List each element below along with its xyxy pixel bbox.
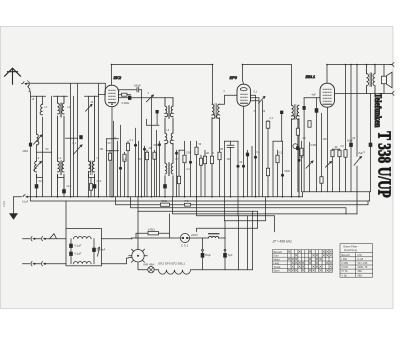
svg-text:5000: 5000 — [154, 144, 160, 147]
svg-text:Lang: Lang — [274, 262, 280, 265]
wire: mains bottom to switch — [102, 257, 133, 264]
capacitor C33 — [147, 110, 160, 125]
wire: long vertical x230 — [227, 141, 234, 197]
svg-text:1M: 1M — [100, 147, 104, 151]
capacitor C11 — [163, 184, 167, 197]
svg-text:468: 468 — [358, 270, 363, 273]
svg-text:2mF: 2mF — [67, 185, 72, 188]
capacitor C2mF — [35, 184, 39, 197]
capacitor C3 — [62, 189, 66, 197]
svg-text:0,3: 0,3 — [279, 151, 283, 155]
capacitor C29 — [143, 148, 146, 151]
wire: left vertical 1 — [30, 92, 32, 197]
wire: EK2 bottom — [111, 107, 113, 197]
model text T338 — [374, 131, 393, 198]
svg-text:1M: 1M — [220, 147, 224, 151]
plug fork top right — [390, 63, 394, 67]
wire: EF6 bottom — [243, 106, 245, 197]
oscillator coil T2 top pair — [165, 98, 173, 119]
svg-text:6–18: 6–18 — [358, 258, 364, 261]
resistor R19 loop — [136, 214, 170, 238]
svg-text:EBL1: EBL1 — [306, 74, 316, 79]
svg-text:II MW: II MW — [342, 262, 349, 265]
coil L1 — [34, 96, 36, 184]
variable arrow EF6 — [251, 96, 266, 196]
svg-text:517–155: 517–155 — [358, 262, 368, 265]
wire: EF6 anode riser — [251, 95, 256, 197]
oscillator coil T2 mid pair — [165, 118, 173, 144]
wire: left vertical x70 — [70, 84, 72, 197]
antenna input plug — [22, 81, 30, 87]
svg-text:0,3MΩ: 0,3MΩ — [122, 101, 130, 105]
wire: EK2 left grid — [99, 94, 106, 96]
resistor R21 — [210, 156, 213, 164]
svg-text:100: 100 — [138, 158, 143, 161]
band table — [273, 250, 333, 273]
wire: EBL1 grid wire — [304, 97, 320, 99]
variable arrow x76 — [74, 145, 83, 154]
plug P3 — [31, 262, 35, 266]
wire: T3 to EF6 grid — [220, 95, 238, 104]
wire: nested y228 — [197, 228, 258, 232]
rotary switch S2 — [129, 247, 147, 265]
svg-text:EK2: EK2 — [114, 75, 122, 80]
resistor R14 — [320, 113, 323, 192]
choke L6 — [74, 236, 92, 238]
svg-text:Tonab.: Tonab. — [274, 266, 282, 269]
wire: link y141c — [225, 140, 239, 142]
variable arrow x328 — [326, 161, 332, 167]
svg-text:4μF: 4μF — [312, 93, 317, 97]
svg-text:Sperr.: Sperr. — [274, 270, 281, 273]
wire: link right y149 — [333, 148, 340, 150]
wire: link y138 — [66, 137, 78, 139]
wire: top bus y=64 far right — [327, 64, 392, 66]
resistor R19 145ohm — [148, 232, 159, 235]
resistor R22 — [108, 153, 111, 160]
wire: EF6 top cap — [243, 65, 244, 85]
svg-text:2mF: 2mF — [97, 180, 102, 183]
capacitor C13 — [281, 141, 284, 197]
svg-text:T 338 U/UP: T 338 U/UP — [374, 131, 393, 198]
resistor R7 — [195, 141, 198, 197]
svg-text:100pF: 100pF — [134, 84, 142, 88]
svg-text:0,5M: 0,5M — [186, 151, 192, 155]
wire: vertical x258.5 — [251, 98, 260, 197]
svg-text:50μF: 50μF — [205, 253, 211, 257]
resistor R15 — [331, 149, 334, 192]
capacitor C23 — [237, 165, 240, 168]
heater chain resistor — [154, 270, 252, 275]
resistor R17 400ohm — [161, 203, 170, 206]
wire: B+ vertical x345 — [344, 65, 347, 192]
svg-text:0,1μF: 0,1μF — [22, 201, 29, 204]
wire: heater top line — [132, 237, 181, 240]
tube table — [340, 244, 373, 278]
wire: vertical x247 — [247, 216, 249, 270]
wire: nested to mains block — [65, 201, 67, 229]
capacitor C28 — [303, 98, 306, 192]
resistor R23 — [123, 154, 126, 161]
ground bus y196.5 — [31, 196, 303, 198]
svg-text:220V: 220V — [191, 233, 198, 237]
capacitor C6 — [93, 184, 97, 197]
wire: EBL1 bottom — [327, 107, 329, 192]
resistor R4 — [145, 150, 148, 197]
resistor R12 — [296, 119, 299, 192]
resistor R11 — [300, 141, 303, 192]
svg-text:Telefunken: Telefunken — [373, 93, 383, 127]
coil L3 pair with core — [58, 96, 65, 161]
ground bus right y191.5 — [303, 93, 371, 196]
resistor R24 — [153, 152, 156, 159]
svg-text:2MΩ: 2MΩ — [23, 149, 29, 153]
node squiggle antenna coil — [28, 85, 30, 92]
capacitor C27 — [280, 111, 283, 142]
svg-text:Zuordnung: Zuordnung — [344, 248, 358, 252]
wire: EBL1 top cap — [326, 65, 328, 84]
ballast C51 — [180, 233, 189, 242]
svg-text:EK2 EF6 EF2 EBL1: EK2 EF6 EF2 EBL1 — [159, 262, 186, 266]
svg-text:5000: 5000 — [285, 170, 291, 173]
svg-text:Mittel: Mittel — [274, 258, 280, 261]
wire: nested y220.5 — [225, 197, 266, 221]
trimmer C5 — [86, 96, 93, 197]
capacitor C8 plates — [118, 88, 142, 92]
wire: antenna bus y=83.5 — [28, 83, 105, 94]
variable arrow mid — [147, 95, 154, 102]
capacitor C15 grid — [315, 98, 319, 192]
wire: nested y211 — [138, 197, 258, 229]
plug P1 — [31, 237, 35, 241]
ground left — [9, 197, 18, 220]
capacitor C26 — [29, 143, 32, 147]
svg-text:100: 100 — [323, 138, 328, 141]
wire: top bus y=64 right — [243, 65, 292, 106]
mains line 1 — [23, 238, 50, 240]
oscillator coil T2 lower pair — [165, 144, 173, 197]
resistor R16 — [338, 149, 341, 192]
choke L7 — [74, 262, 92, 264]
wire: vertical x272.5 — [272, 141, 274, 197]
resistor R3 — [126, 141, 129, 197]
svg-text:400Ω: 400Ω — [161, 199, 167, 203]
wire: EK2 top cap — [111, 65, 113, 86]
svg-text:468: 468 — [358, 274, 363, 277]
svg-text:2000–75: 2000–75 — [358, 266, 368, 269]
svg-text:Bereich: Bereich — [342, 254, 351, 257]
choke L8 — [190, 233, 225, 238]
labels small — [2, 199, 233, 267]
wire: switch bottom riser — [138, 265, 148, 270]
capacitor C19 0.1uF — [69, 252, 73, 264]
svg-text:EF6: EF6 — [230, 75, 238, 80]
wire: vertical x156 — [156, 130, 158, 197]
svg-text:1M: 1M — [206, 152, 209, 155]
wire: long vertical x224 — [224, 141, 226, 221]
svg-text:C 5 1: C 5 1 — [181, 244, 189, 248]
switch S1 — [98, 247, 100, 256]
wire: left section top links — [31, 95, 99, 97]
capacitor C7 — [119, 96, 174, 100]
resistor R6 — [183, 141, 186, 197]
antenna — [5, 68, 21, 84]
resistor R18 — [185, 203, 191, 206]
wire: extra comb verticals — [110, 141, 252, 197]
svg-text:s.0,5: s.0,5 — [2, 201, 6, 207]
svg-text:MR 49A: MR 49A — [144, 263, 155, 267]
svg-text:V Sp: V Sp — [342, 274, 348, 277]
svg-text:0,1: 0,1 — [130, 138, 134, 142]
capacitor C17 — [369, 143, 373, 147]
mains line 2 — [23, 263, 67, 265]
wire: B+ vertical x356.5 — [356, 65, 358, 157]
svg-text:5000pF: 5000pF — [97, 248, 106, 252]
wire: vertical x98 — [98, 84, 100, 197]
resistor R20 — [203, 150, 206, 197]
svg-text:III LW: III LW — [342, 266, 349, 269]
svg-text:I KW: I KW — [342, 258, 348, 261]
misc value labels — [32, 90, 366, 188]
capacitor C32 — [246, 153, 249, 157]
svg-text:Kurz: Kurz — [274, 255, 280, 258]
plug P4 — [42, 262, 46, 266]
wire: link y152 — [37, 151, 52, 153]
svg-text:kHz: kHz — [358, 254, 363, 257]
svg-text:R 8: R 8 — [185, 199, 190, 203]
capacitor C4 — [79, 135, 82, 139]
capacitor C16 — [349, 65, 353, 192]
capacitor C21 50uF — [201, 238, 205, 270]
coil L4 pair lower — [58, 161, 65, 197]
capacitor C10 — [134, 128, 137, 197]
svg-text:100: 100 — [227, 158, 232, 161]
wire: vertical x252 — [252, 211, 254, 270]
svg-text:0,5M: 0,5M — [311, 143, 317, 147]
mains filter block — [66, 229, 102, 266]
coil L5 pair lower right — [91, 96, 95, 184]
tube EK2 — [105, 85, 119, 107]
resistor R25 — [200, 158, 203, 165]
plug P2 — [42, 237, 46, 241]
plug fork bottom right — [390, 91, 394, 95]
svg-text:2M: 2M — [149, 146, 153, 150]
wire: EBL1 anode to output — [335, 92, 391, 94]
wire: link y141d — [273, 140, 283, 142]
wire: nested y215.5 — [197, 197, 275, 232]
table title — [272, 240, 293, 244]
coil L1b variable — [34, 134, 43, 145]
resistor R13 — [308, 121, 311, 192]
output transformer T5 — [367, 65, 376, 94]
resistor R2 — [107, 139, 119, 197]
svg-text:0,1μF: 0,1μF — [75, 244, 82, 248]
wire: extra left verticals — [52, 96, 74, 197]
wire: vertical x113 — [113, 121, 115, 197]
wire: mains to switch — [102, 238, 133, 240]
resistor R10 — [276, 150, 279, 197]
IF transformer T4 — [292, 105, 300, 197]
capacitor C14 trimmer circle — [293, 144, 301, 162]
capacitor C31 — [175, 152, 178, 155]
capacitor C12 — [189, 141, 192, 197]
variable arrow x309 — [306, 161, 313, 168]
tube EF6 — [237, 84, 251, 106]
svg-text:0,1μF: 0,1μF — [75, 252, 82, 256]
wire: vertical x141 — [141, 90, 143, 197]
wire: long vertical x237.5 — [237, 141, 239, 216]
wire: nested y213.7 — [173, 197, 358, 214]
Telefunken logo text — [373, 93, 383, 127]
resistor R8 — [218, 150, 221, 197]
wire: coil pair joins — [37, 174, 95, 177]
svg-text:50μF: 50μF — [298, 155, 304, 159]
coil L2 — [40, 96, 42, 197]
svg-text:145Ω: 145Ω — [148, 228, 156, 232]
svg-text:0,1: 0,1 — [73, 141, 77, 145]
svg-text:5μF: 5μF — [228, 253, 233, 257]
variable arrow lower-left pair — [34, 161, 42, 170]
capacitor C22 50uF — [223, 221, 227, 270]
svg-text:0,1: 0,1 — [270, 116, 274, 120]
component value labels — [23, 84, 364, 160]
wire: top bus y=64 left — [112, 65, 213, 105]
wire: switch top riser — [137, 211, 139, 246]
svg-text:IV TA: IV TA — [342, 270, 348, 273]
wire: link y141b — [179, 149, 185, 151]
variable arrow right — [354, 156, 362, 214]
wire: nested y207.5 — [131, 197, 347, 214]
svg-text:0,1: 0,1 — [254, 90, 258, 94]
svg-text:Eisen-Filter: Eisen-Filter — [344, 245, 358, 249]
wire: nested y200.8 — [31, 192, 370, 201]
capacitor C24 — [242, 165, 245, 168]
resistor R1 — [119, 93, 131, 96]
svg-text:2mF: 2mF — [39, 180, 44, 183]
capacitor C25 — [254, 156, 257, 159]
capacitor C30 — [158, 143, 161, 146]
resistor R9 — [266, 120, 270, 197]
wire: vertical x238 — [238, 216, 240, 270]
wire: nested y204.5 — [116, 197, 369, 205]
tube EBL1 — [320, 83, 335, 107]
capacitor C9 — [119, 125, 122, 197]
plug left on bus — [14, 195, 31, 198]
IF transformer T3 — [212, 104, 220, 197]
speaker LS — [382, 65, 393, 94]
resistor R5 — [177, 150, 180, 197]
capacitor C20 5000pF — [92, 239, 96, 264]
svg-text:Bereich: Bereich — [274, 251, 283, 254]
fuse F1 — [50, 234, 67, 239]
dial lamp MR49A — [148, 267, 154, 273]
capacitor C18 0.1uF — [69, 239, 73, 252]
svg-text:Zf = 468 kHz: Zf = 468 kHz — [272, 240, 293, 244]
wire: vertical x151 — [151, 98, 153, 197]
resistor R26 — [89, 177, 92, 196]
wire: left vertical x77 — [77, 84, 79, 197]
